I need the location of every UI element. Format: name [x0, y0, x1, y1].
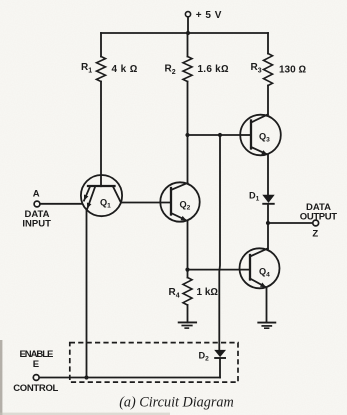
svg-text:1.6 kΩ: 1.6 kΩ [198, 64, 229, 75]
svg-text:Z: Z [312, 228, 318, 239]
svg-text:CONTROL: CONTROL [13, 383, 58, 394]
svg-text:4 k Ω: 4 k Ω [112, 64, 138, 75]
svg-text:1 kΩ: 1 kΩ [197, 287, 219, 298]
svg-text:A: A [33, 189, 40, 200]
svg-text:+ 5 V: + 5 V [196, 10, 222, 21]
svg-text:OUTPUT: OUTPUT [300, 212, 338, 223]
svg-text:E: E [33, 359, 39, 370]
svg-text:130 Ω: 130 Ω [279, 65, 306, 76]
svg-text:(a) Circuit Diagram: (a) Circuit Diagram [119, 395, 234, 411]
svg-text:INPUT: INPUT [22, 219, 51, 230]
